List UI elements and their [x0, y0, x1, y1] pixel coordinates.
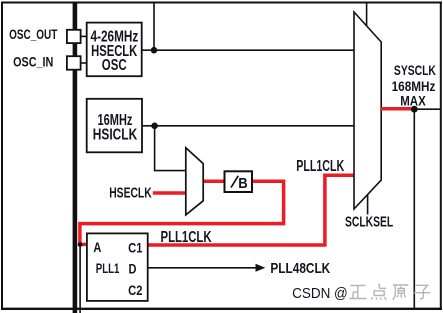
svg-text:OSC: OSC [102, 57, 127, 74]
svg-text:OSC_IN: OSC_IN [13, 54, 53, 69]
svg-text:OSC_OUT: OSC_OUT [9, 26, 58, 42]
label /B slash [231, 176, 238, 188]
pin OSC_IN pad [67, 56, 81, 69]
wire red PLL source mux output to /B divider [203, 179, 225, 183]
mux SCLKSEL system clock select (large) [354, 12, 381, 209]
svg-text:HSICLK: HSICLK [93, 126, 137, 143]
node HSI junction [151, 123, 158, 130]
wire red PLL1CLK from C1 output up into SYSCLK mux [148, 175, 355, 245]
oscillator HSE 4-26MHz OSC box [87, 23, 142, 77]
wire OSC_IN pad to HSE OSC [81, 62, 87, 64]
svg-text:CSDN @: CSDN @ [292, 285, 348, 302]
svg-text:PLL1: PLL1 [96, 260, 120, 276]
wire HSECLK net from HSE OSC to SYSCLK mux [142, 49, 355, 51]
svg-text:PLL1CLK: PLL1CLK [161, 227, 212, 245]
border frame [1, 2, 442, 4]
node PLL1 A input junction [78, 242, 83, 247]
pin OSC_OUT pad [67, 30, 81, 43]
label SYSCLK 168MHz MAX [392, 63, 436, 109]
wire red SYSCLK output of mux [381, 107, 414, 111]
mux PLL source select (small) [186, 148, 203, 215]
svg-text:PLL48CLK: PLL48CLK [270, 260, 330, 277]
svg-text:SCLKSEL: SCLKSEL [345, 213, 393, 231]
wire black branch from PLL1 A input junction to bottom edge [79, 244, 81, 313]
glyph 原 [393, 285, 409, 300]
wire HSI branch down to PLL source mux top input [155, 126, 187, 171]
wire SCLKSEL select input below mux [367, 194, 369, 215]
glyph 点 [371, 284, 386, 300]
svg-text:D: D [129, 260, 137, 277]
divider /B box [225, 171, 253, 192]
wire HSICLK net from HSI RC to SYSCLK mux [142, 125, 355, 127]
svg-text:C2: C2 [128, 282, 142, 299]
watermark CSDN @正点原子 [292, 284, 431, 303]
wire OSC_OUT pad to HSE OSC [81, 35, 87, 37]
glyph 子 [414, 285, 430, 298]
wire red /B output routed down and left into PLL1 input A [80, 181, 284, 244]
wire SYSCLK branch down to bottom border [413, 109, 415, 309]
PLL PLL1 box [87, 233, 148, 301]
svg-text:HSECLK: HSECLK [109, 184, 152, 201]
svg-text:PLL1CLK: PLL1CLK [296, 157, 344, 174]
wire PLL48CLK from D output [148, 267, 256, 269]
svg-text:B: B [238, 175, 247, 191]
wire red HSECLK label into PLL source mux [153, 191, 187, 195]
chip boundary thick line [73, 2, 78, 313]
svg-text:SYSCLK: SYSCLK [394, 63, 436, 79]
oscillator HSI 16MHz RC box [87, 99, 142, 153]
svg-text:MAX: MAX [400, 92, 426, 108]
wire HSE branch up to top border [153, 3, 155, 50]
wire SYSCLK to right border [414, 108, 441, 110]
node HSE junction [151, 47, 158, 54]
svg-text:C1: C1 [128, 239, 142, 256]
wire top input of SYSCLK mux from top border [366, 3, 368, 28]
node SYSCLK junction [411, 106, 418, 113]
arrowhead PLL48CLK [256, 264, 266, 272]
glyph 正 [349, 286, 366, 299]
svg-text:A: A [93, 239, 101, 256]
